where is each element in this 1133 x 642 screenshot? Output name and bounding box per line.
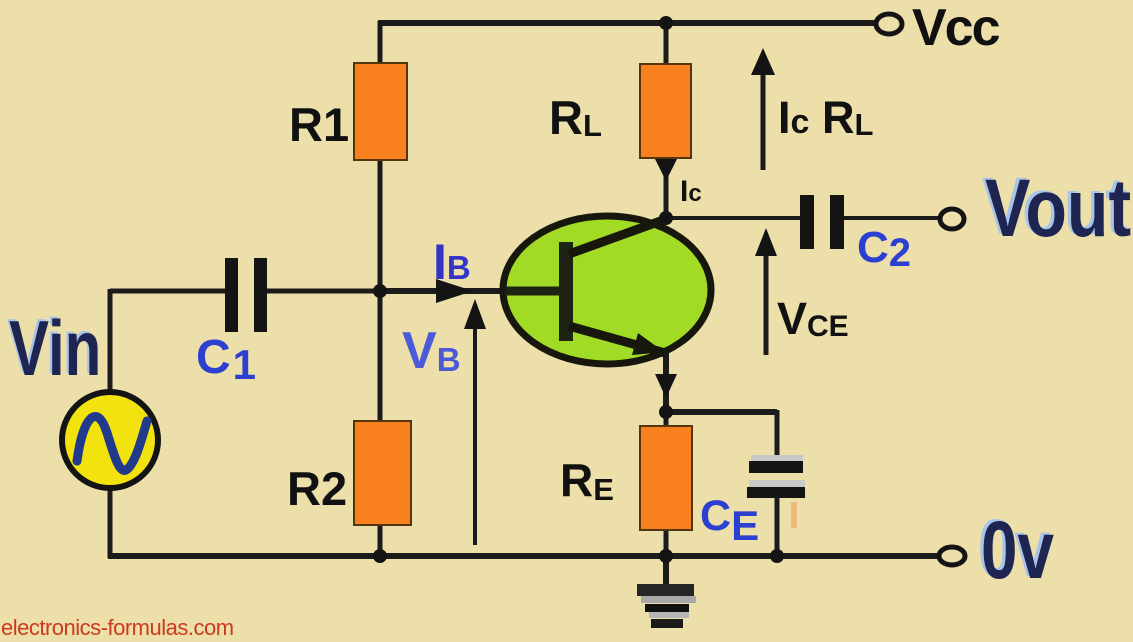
label Vin xyxy=(7,302,102,391)
svg-text:electronics-formulas.com: electronics-formulas.com xyxy=(1,615,234,640)
label 0v xyxy=(978,502,1054,596)
svg-text:Vin: Vin xyxy=(9,304,101,391)
artifact orange tick near CE xyxy=(791,502,797,528)
wire base node to transistor base xyxy=(380,288,566,294)
svg-text:Vcc: Vcc xyxy=(912,0,1000,57)
resistor R1 xyxy=(354,63,407,160)
wire CE bottom lead xyxy=(775,497,780,556)
terminal Vout xyxy=(940,209,964,229)
wire emitter vertical xyxy=(663,350,669,412)
resistor RL xyxy=(640,64,691,158)
junction node R2 bottom xyxy=(373,549,387,563)
junction node RE bottom xyxy=(659,549,673,563)
wire collector node to C2 xyxy=(666,216,802,220)
arrow IB head xyxy=(436,279,473,303)
Vin source circle xyxy=(62,392,158,488)
wire input horizontal Vin to C1 xyxy=(110,289,228,294)
svg-text:R2: R2 xyxy=(287,462,347,515)
terminal 0v xyxy=(939,547,965,565)
wire CE top lead xyxy=(775,410,780,462)
wire collector branch RL xyxy=(664,21,669,218)
svg-text:Ic: Ic xyxy=(680,175,702,208)
svg-text:0v: 0v xyxy=(981,504,1054,596)
capacitor CE xyxy=(751,455,803,463)
Vin sine wave xyxy=(77,416,147,470)
wire C1 to base node xyxy=(265,289,380,294)
resistor R2 xyxy=(354,421,411,525)
ground symbol xyxy=(637,584,694,596)
wire base inside transistor xyxy=(505,287,566,296)
label Vout xyxy=(982,160,1131,253)
capacitor C2 xyxy=(800,195,814,249)
wire ground stem xyxy=(663,556,669,588)
wire RE branch xyxy=(664,412,669,556)
junction node top rail / RL xyxy=(659,16,673,30)
junction node emitter xyxy=(659,405,673,419)
resistor RE xyxy=(640,426,692,530)
arrow VCE up xyxy=(764,254,769,355)
svg-text:R1: R1 xyxy=(289,98,349,151)
transistor collector stroke xyxy=(569,219,666,254)
junction node collector xyxy=(659,211,673,225)
transistor base bar xyxy=(559,242,573,341)
svg-text:Vout: Vout xyxy=(985,162,1131,253)
arrow Ic RL up xyxy=(761,73,766,170)
arrow Ic down (below RL) xyxy=(655,159,677,181)
junction node CE bottom xyxy=(770,549,784,563)
wire C2 to Vout terminal xyxy=(843,216,940,220)
arrow emitter down xyxy=(655,374,677,398)
transistor Q1 body xyxy=(503,216,711,364)
capacitor C1 xyxy=(225,258,238,332)
terminal Vcc xyxy=(876,14,902,34)
svg-text:C2: C2 xyxy=(857,223,911,275)
junction node base xyxy=(373,284,387,298)
arrow VB xyxy=(473,327,477,545)
wire Vin branch upper xyxy=(108,289,113,393)
transistor emitter stroke xyxy=(569,326,665,353)
transistor emitter arrowhead xyxy=(632,333,664,355)
wire top rail Vcc xyxy=(378,20,876,26)
wire emitter node to CE xyxy=(666,409,777,415)
wire bottom rail 0v xyxy=(108,553,938,559)
wire Vin branch lower xyxy=(108,487,113,558)
wire left bias branch vertical xyxy=(378,21,383,556)
